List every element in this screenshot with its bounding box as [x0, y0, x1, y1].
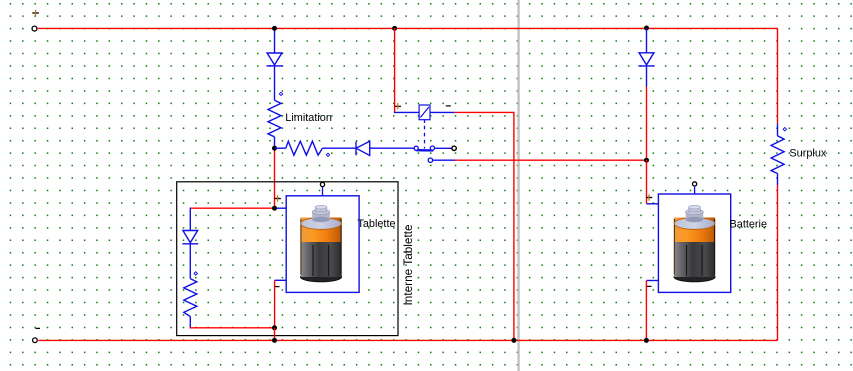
wire Surplux to bus red	[777, 185, 779, 340]
wire relay feed (red vertical)	[394, 28, 396, 112]
wire relay right blue	[430, 111, 455, 113]
wire diode lead blue	[646, 66, 648, 87]
battery B1 Batterie box	[658, 194, 730, 292]
wire Surplux lead blue top	[777, 124, 779, 136]
wire node to Tablette plus (red vertical)	[274, 148, 276, 208]
relay actuator dashed link	[424, 120, 426, 149]
wire diode to node red	[646, 87, 648, 161]
wire Batterie minus red to bus	[645, 281, 647, 341]
wire inner top red	[190, 207, 274, 209]
node junction right branch / NO wire	[644, 158, 649, 163]
wire Tablette minus blue	[275, 279, 287, 281]
resistor R2 (horizontal)	[286, 141, 323, 155]
label plus Tablette	[274, 195, 280, 201]
node junction bus / relay wire	[511, 338, 516, 343]
wire resistor bottom blue	[189, 317, 191, 328]
Tablette outer box	[177, 182, 398, 336]
svg-text:Tablette: Tablette	[357, 218, 395, 230]
label plus relay	[395, 103, 401, 109]
wire inner bottom to bus	[274, 328, 276, 341]
label minus Batterie	[647, 285, 652, 287]
wire switch to open terminal	[435, 147, 452, 149]
marker R2	[326, 153, 329, 156]
node junction Tablette plus	[272, 206, 277, 211]
diode D4 (down)	[182, 231, 198, 244]
wire resistor to diode	[322, 147, 356, 149]
wire to horizontal resistor	[275, 147, 286, 149]
minus label bottom-left terminal	[36, 327, 40, 329]
wire bottom bus	[38, 339, 777, 341]
resistor R4	[184, 279, 197, 317]
node junction top bus / right branch	[644, 26, 649, 31]
terminal Batterie top	[694, 187, 696, 194]
diode D2 (left)	[356, 141, 370, 155]
marker R1	[279, 92, 282, 95]
wire top bus	[38, 27, 778, 29]
wire to Batterie rect	[647, 203, 659, 205]
node junction inner bottom	[272, 325, 277, 330]
wire Batterie minus blue	[646, 280, 658, 282]
wire diode to resistor blue	[189, 244, 191, 279]
label minus Tablette	[275, 286, 280, 288]
switch pivot contact	[414, 146, 418, 150]
svg-text:Batterie: Batterie	[730, 218, 768, 230]
wire Surplux lead blue bottom	[777, 174, 779, 186]
terminal open (black)	[452, 146, 456, 150]
node junction top bus / relay feed	[392, 26, 397, 31]
wire NO contact red to right branch	[455, 159, 647, 161]
wire NO contact blue	[433, 159, 455, 161]
node junction bus / Batterie	[644, 338, 649, 343]
wire inner left blue	[189, 208, 191, 231]
resistor R3 Surplux	[771, 136, 784, 174]
svg-text:Interne Tablette: Interne Tablette	[401, 224, 415, 306]
relay coil K1	[419, 105, 430, 120]
wire to relay coil	[394, 111, 419, 113]
wire diode to resistor	[274, 66, 276, 100]
wire node to Tablette rect blue	[275, 207, 287, 209]
battery B2 Tablette box	[286, 196, 359, 293]
terminal bottom-left	[33, 338, 38, 343]
node junction at resistor row	[272, 146, 277, 151]
terminal top-left	[32, 26, 37, 31]
label plus Batterie	[646, 194, 652, 200]
switch NO contact	[428, 158, 432, 162]
node junction top bus / left branch	[272, 26, 277, 31]
wire resistor to node	[274, 137, 276, 148]
resistor R1 Limitation	[268, 100, 281, 137]
diode D1 (down)	[267, 53, 283, 66]
wire right branch top blue	[646, 28, 648, 53]
switch SW1 arm	[416, 149, 433, 152]
plus label top-left terminal	[32, 10, 39, 16]
battery B1 image	[674, 205, 715, 281]
node junction bus / Tablette	[272, 338, 277, 343]
switch contact mid	[430, 146, 434, 150]
svg-text:Limitation: Limitation	[285, 112, 332, 124]
wire left branch top (blue)	[274, 28, 276, 53]
wire diode to switch	[370, 147, 415, 149]
marker R4	[194, 272, 197, 275]
label minus relay	[446, 105, 451, 107]
wire inner bottom red	[190, 327, 275, 329]
wire node to Batterie plus	[646, 160, 648, 204]
page separator line	[517, 0, 519, 371]
wire Tablette minus red	[274, 280, 276, 328]
battery B2 image	[300, 205, 341, 281]
wire relay right red	[455, 112, 514, 340]
marker R3	[783, 128, 786, 131]
diode D3 (down)	[638, 53, 654, 66]
wire Surplux top red	[777, 28, 779, 123]
svg-text:Surplux: Surplux	[789, 148, 826, 160]
terminal Tablette top	[322, 187, 324, 196]
